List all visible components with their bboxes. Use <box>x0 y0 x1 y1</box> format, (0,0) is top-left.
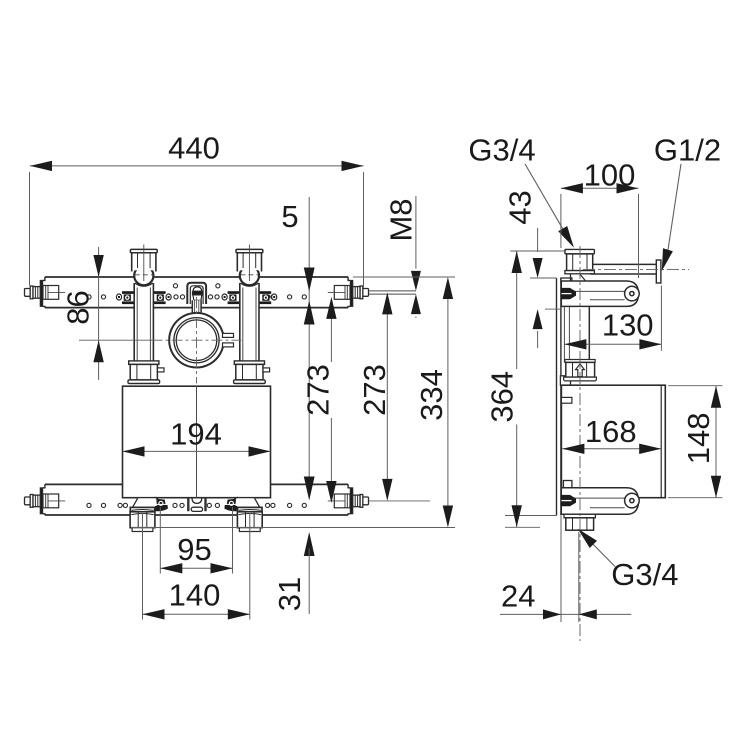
bracket clamp bolt <box>561 288 577 299</box>
bracket pivot <box>625 493 640 508</box>
flow fitting flange <box>564 377 597 381</box>
dim 148 <box>668 385 723 387</box>
left rail end cap <box>40 488 43 514</box>
pipe holder ring <box>169 313 224 368</box>
plate mid ribs <box>563 306 565 362</box>
outlet flange at x=142.5 <box>130 507 154 511</box>
G3/4 bottom outlet flange <box>564 514 595 518</box>
riser pipe at x=249.4 <box>240 285 259 362</box>
outlet flange at x=249.8 <box>238 507 262 511</box>
right nut plate <box>334 494 350 508</box>
svg-text:273: 273 <box>301 364 336 416</box>
outlet hex nut at x=142.5 <box>130 512 155 528</box>
holder centrelines <box>152 339 242 341</box>
svg-text:G1/2: G1/2 <box>654 133 721 168</box>
flow fitting hex <box>566 362 595 377</box>
foot edge at x=142.5 <box>132 498 138 508</box>
svg-text:364: 364 <box>485 371 520 423</box>
dim 273 first <box>330 319 332 363</box>
svg-text:G3/4: G3/4 <box>611 557 678 592</box>
foot clamp shelf at x=142.5 <box>155 505 168 511</box>
outlet foot neck at x=249.8 <box>236 498 261 507</box>
inlet elbow <box>570 274 572 281</box>
outlet cap at x=249.8 <box>239 528 260 532</box>
tab above bottom bracket <box>563 481 572 488</box>
svg-text:M8: M8 <box>384 198 419 241</box>
pipe elbow ball at x=249.4 <box>240 266 259 285</box>
dim 334 <box>353 276 455 278</box>
svg-text:86: 86 <box>61 290 96 324</box>
riser pipe at x=143.8 <box>134 285 153 362</box>
plate lower foot <box>560 376 570 385</box>
top rail centre bracket <box>187 283 206 304</box>
left nut plate <box>43 494 59 508</box>
dim 273 second <box>386 314 388 479</box>
pipe clamp at x=240 <box>228 291 240 294</box>
bottom swivel bracket <box>561 488 638 515</box>
pipe clamp at x=134 <box>122 291 134 294</box>
ext line plate bottom <box>505 515 557 517</box>
pipe clamp at x=259 <box>259 291 271 294</box>
svg-text:95: 95 <box>177 532 211 567</box>
G3/4 bottom outlet hex <box>566 518 594 530</box>
dim 130 <box>660 286 662 351</box>
svg-text:148: 148 <box>681 413 716 465</box>
right adjusting screw <box>363 497 369 505</box>
svg-text:140: 140 <box>169 578 221 613</box>
svg-text:130: 130 <box>602 308 654 343</box>
bottom mounting rail <box>45 483 348 485</box>
holder clamp lugs <box>223 333 234 337</box>
G3/4 inlet hex top <box>565 249 595 254</box>
svg-text:334: 334 <box>414 369 449 421</box>
left adjusting screw <box>25 289 31 297</box>
svg-text:440: 440 <box>168 131 220 166</box>
bottom rail centre bracket <box>187 498 189 511</box>
left adjusting screw <box>25 497 31 505</box>
dim 24 <box>560 516 562 622</box>
outlet foot neck at x=142.5 <box>132 498 157 507</box>
pipe clamp at x=154 <box>154 291 166 294</box>
right nut plate <box>334 286 350 300</box>
left nut plate <box>43 286 59 300</box>
svg-text:43: 43 <box>503 190 538 224</box>
foot clamp screw at x=160 <box>156 499 166 507</box>
top mounting rail <box>45 276 348 278</box>
pipe union nut at x=143.8 <box>129 361 159 365</box>
side wall plate <box>556 278 558 516</box>
dim 95 <box>159 507 161 574</box>
foot edge at x=249.8 <box>255 498 261 508</box>
flow fitting washer <box>565 360 595 363</box>
right rail end cap <box>350 280 353 306</box>
svg-text:5: 5 <box>281 199 298 234</box>
flow direction arrow <box>576 364 585 377</box>
side valve body <box>561 385 665 498</box>
bottom rail holes <box>87 503 91 507</box>
svg-text:31: 31 <box>272 577 307 611</box>
G1/2 outlet pipe <box>593 263 658 265</box>
outlet cap at x=142.5 <box>132 528 153 532</box>
pipe elbow nut at x=143.8 <box>132 253 156 270</box>
svg-text:273: 273 <box>357 364 392 416</box>
pipe union nut at x=249.4 <box>234 361 264 365</box>
top swivel bracket <box>561 281 638 306</box>
svg-text:100: 100 <box>584 158 636 193</box>
bracket pivot <box>625 286 640 301</box>
plate top tab <box>561 278 572 283</box>
centre bracket stem <box>192 300 201 312</box>
top rail holes <box>87 295 91 299</box>
centre bracket nut <box>193 287 201 291</box>
outlet centreline <box>583 268 689 270</box>
left rail end cap <box>40 280 43 306</box>
bracket clamp bolt <box>561 495 577 506</box>
body side tab <box>561 397 572 403</box>
pipe elbow nut at x=249.4 <box>237 253 261 270</box>
dim 168 <box>562 448 661 450</box>
svg-text:G3/4: G3/4 <box>468 133 535 168</box>
right adjusting screw <box>363 289 369 297</box>
pipe elbow ball at x=143.8 <box>134 266 153 285</box>
vertical feed pipe <box>588 306 590 362</box>
dim 100 <box>560 194 562 248</box>
foot clamp shelf at x=249.8 <box>224 505 237 511</box>
dim 31 <box>304 477 315 501</box>
outlet hex nut at x=249.8 <box>237 512 262 528</box>
valve body <box>123 386 271 498</box>
foot clamp screw at x=232 <box>226 499 236 507</box>
union tab at x=143.8 <box>157 368 164 372</box>
svg-text:194: 194 <box>170 417 222 452</box>
outlet end flange <box>656 260 661 283</box>
dim 140 <box>142 513 144 620</box>
union tab at x=249.4 <box>263 368 270 372</box>
dim 86 <box>98 247 100 380</box>
dim 440 <box>29 172 31 286</box>
dim 364 <box>516 251 518 369</box>
svg-text:24: 24 <box>501 579 535 614</box>
svg-text:168: 168 <box>585 414 637 449</box>
side vertical centreline <box>579 246 581 641</box>
dim 194 <box>123 450 271 452</box>
right rail end cap <box>350 488 353 514</box>
